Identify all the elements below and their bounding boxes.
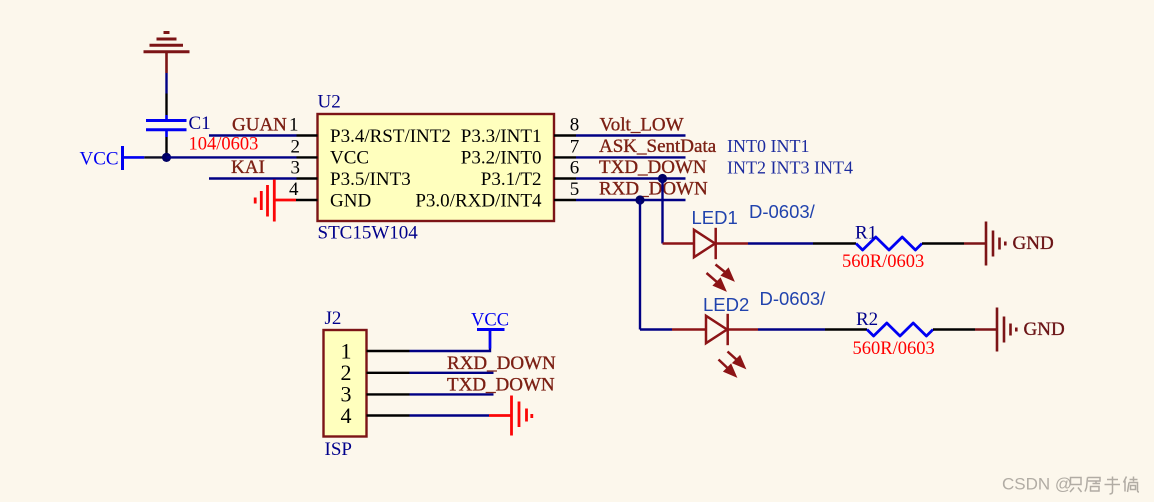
- U2 pin 8: [461, 115, 580, 147]
- junction (RXD_DOWN): [635, 195, 644, 204]
- wire ASK_SentData: [576, 156, 686, 158]
- wire (VCC to junction): [144, 156, 166, 158]
- svg-text:INT0 INT1: INT0 INT1: [727, 136, 809, 156]
- connector J2 body: [324, 330, 367, 437]
- U2 pin 5: [415, 179, 579, 211]
- power port VCC (J2): [471, 311, 509, 349]
- junction (VCC / C1): [162, 153, 171, 162]
- U2 pin 3: [291, 158, 411, 190]
- wire TXD_DOWN: [576, 177, 686, 179]
- power port VCC (left): [80, 146, 145, 170]
- svg-text:P3.4/RST/INT2: P3.4/RST/INT2: [330, 126, 451, 147]
- power ground (red) at J2 pin 4: [489, 396, 532, 436]
- wire (TXD junction down to LED1): [661, 179, 663, 244]
- svg-text:4: 4: [289, 179, 299, 200]
- svg-text:GUAN: GUAN: [232, 115, 287, 136]
- svg-text:P3.2/INT0: P3.2/INT0: [461, 148, 542, 169]
- wire (J2 pin3): [410, 393, 494, 395]
- wire (LED1 to R1): [748, 242, 813, 244]
- svg-text:2: 2: [291, 137, 301, 158]
- svg-text:VCC: VCC: [80, 149, 119, 170]
- wire (junction to U2 pin 2): [167, 156, 297, 158]
- svg-text:104/0603: 104/0603: [189, 135, 259, 155]
- svg-text:1: 1: [289, 115, 299, 136]
- svg-text:D-0603/: D-0603/: [749, 201, 816, 222]
- wire (earth to C1): [165, 73, 167, 94]
- LED1 emission arrows: [707, 265, 733, 290]
- capacitor C1: [146, 94, 187, 158]
- U2 pin 7: [461, 137, 580, 169]
- svg-text:CSDN @: CSDN @: [1002, 475, 1072, 494]
- svg-text:GND: GND: [1024, 319, 1065, 340]
- svg-text:RXD_DOWN: RXD_DOWN: [447, 353, 556, 374]
- watermark CSDN: [1002, 475, 1072, 494]
- U2 pin 2: [291, 137, 370, 169]
- wire RXD_DOWN: [576, 199, 686, 201]
- svg-text:5: 5: [570, 179, 580, 200]
- svg-text:P3.0/RXD/INT4: P3.0/RXD/INT4: [415, 190, 542, 211]
- svg-text:4: 4: [341, 403, 352, 428]
- power ground (red) at U2 pin 4: [255, 180, 296, 222]
- LED2 emission arrows: [719, 352, 745, 376]
- resistor R1: [813, 237, 964, 250]
- svg-text:U2: U2: [318, 92, 341, 113]
- IC U2 body: [318, 114, 555, 221]
- svg-text:GND: GND: [1013, 233, 1054, 254]
- wire (J2 pin1 to VCC): [410, 331, 491, 351]
- wire KAI: [209, 177, 297, 179]
- svg-text:J2: J2: [325, 308, 342, 329]
- svg-text:LED2: LED2: [703, 294, 749, 315]
- svg-text:560R/0603: 560R/0603: [842, 252, 924, 272]
- U2 pin 4: [289, 179, 371, 211]
- svg-text:8: 8: [570, 115, 580, 136]
- svg-text:VCC: VCC: [330, 148, 369, 169]
- svg-text:C1: C1: [189, 113, 211, 134]
- J2 pin 3: [341, 382, 410, 407]
- J2 pin 1: [341, 338, 410, 363]
- wire (RXD junction down to LED2): [639, 200, 641, 330]
- svg-text:GND: GND: [330, 190, 371, 211]
- svg-text:ISP: ISP: [325, 439, 352, 460]
- svg-text:R1: R1: [855, 223, 877, 244]
- svg-text:KAI: KAI: [231, 157, 265, 178]
- junction (TXD_DOWN): [658, 174, 667, 183]
- svg-text:P3.3/INT1: P3.3/INT1: [461, 126, 542, 147]
- svg-text:INT2 INT3 INT4: INT2 INT3 INT4: [727, 158, 853, 178]
- wire (LED2 to R2): [758, 328, 825, 330]
- J2 pin 2: [341, 360, 410, 385]
- earth ground symbol (top): [144, 33, 190, 74]
- svg-text:3: 3: [291, 158, 301, 179]
- wire (J2 pin4): [410, 414, 490, 416]
- svg-text:Volt_LOW: Volt_LOW: [600, 114, 684, 135]
- svg-text:7: 7: [570, 137, 580, 158]
- svg-text:LED1: LED1: [692, 207, 738, 228]
- svg-text:VCC: VCC: [471, 311, 509, 331]
- svg-text:560R/0603: 560R/0603: [853, 339, 935, 359]
- U2 pin 6: [481, 158, 579, 190]
- wire (J2 pin2): [410, 372, 494, 374]
- svg-text:D-0603/: D-0603/: [760, 288, 827, 309]
- LED2 diode: [640, 314, 758, 345]
- svg-text:STC15W104: STC15W104: [318, 223, 419, 244]
- power ground GND (LED1 row): [964, 222, 1005, 266]
- svg-text:P3.5/INT3: P3.5/INT3: [330, 169, 411, 190]
- svg-text:TXD_DOWN: TXD_DOWN: [599, 157, 707, 178]
- power ground GND (LED2 row): [975, 308, 1016, 352]
- resistor R2: [825, 323, 975, 336]
- svg-text:6: 6: [570, 158, 580, 179]
- watermark hanzi 只属于俺: [1070, 477, 1139, 495]
- svg-text:RXD_DOWN: RXD_DOWN: [599, 178, 708, 199]
- U2 pin 1: [289, 115, 451, 147]
- svg-text:ASK_SentData: ASK_SentData: [599, 136, 717, 157]
- LED1 diode: [663, 228, 749, 259]
- wire GUAN: [209, 134, 297, 136]
- J2 pin 4: [341, 403, 410, 428]
- svg-text:P3.1/T2: P3.1/T2: [481, 169, 542, 190]
- svg-text:TXD_DOWN: TXD_DOWN: [447, 375, 555, 396]
- wire Volt_LOW: [576, 134, 686, 136]
- svg-text:R2: R2: [856, 309, 878, 330]
